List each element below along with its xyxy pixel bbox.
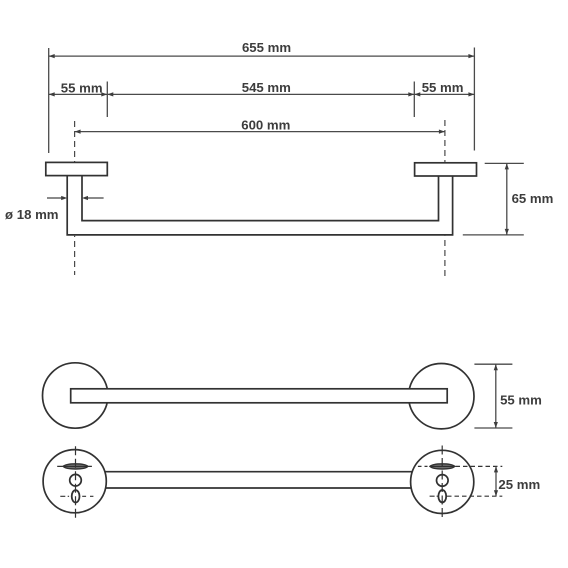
left anchor lens mid line <box>63 465 88 467</box>
tick left (row2) <box>106 82 108 118</box>
left anchor centerline dashes <box>57 465 92 467</box>
arrow row2 at left ext <box>49 92 55 96</box>
bar tube white body <box>66 175 453 236</box>
25 mm dimension line <box>495 466 497 496</box>
left oval centerline dashes <box>60 495 93 497</box>
centerline right (dashed) <box>444 120 446 277</box>
arrow 655 left <box>49 54 55 58</box>
back view: left rosette circle <box>43 450 106 513</box>
dashed line oval to dimension <box>447 495 502 497</box>
left anchor lens <box>63 464 88 469</box>
arrow row2 left tick from 55 side <box>101 92 107 96</box>
svg-text:600 mm: 600 mm <box>241 117 290 132</box>
right anchor lens mid line <box>430 465 455 467</box>
svg-text:55 mm: 55 mm <box>61 80 103 95</box>
right vertical centerline <box>441 446 443 521</box>
arrow row2 left tick from 545 side <box>107 92 113 96</box>
front view: right rosette circle <box>409 364 474 429</box>
back view: bar top line <box>105 471 412 473</box>
svg-text:65 mm: 65 mm <box>512 191 554 206</box>
svg-text:655 mm: 655 mm <box>242 40 291 55</box>
right oval left dashes <box>430 495 439 497</box>
svg-text:545 mm: 545 mm <box>242 80 291 95</box>
arrow 25 top <box>494 466 498 472</box>
centerline left (dashed) <box>74 121 76 275</box>
dimension line row2 <box>49 93 475 95</box>
diameter arrow left <box>47 197 62 199</box>
arrow 65 bottom <box>505 229 509 235</box>
55 mm reference line top <box>474 363 512 365</box>
front view: left rosette circle <box>42 363 107 428</box>
arrow row2 at right ext <box>468 92 474 96</box>
bar inner contour <box>82 176 439 221</box>
left screw head circle <box>70 474 82 486</box>
svg-text:ø 18 mm: ø 18 mm <box>5 207 59 222</box>
arrow 55 bottom <box>494 422 498 428</box>
arrow 55 top <box>494 364 498 370</box>
right screw oval <box>438 490 446 502</box>
65 mm reference line bottom <box>463 234 524 236</box>
arrow 655 right <box>468 54 474 58</box>
left vertical centerline <box>75 446 77 519</box>
right wall plate <box>415 163 477 176</box>
svg-text:25 mm: 25 mm <box>498 477 540 492</box>
extension line left <box>48 48 50 153</box>
left screw oval <box>72 490 80 502</box>
55 mm reference line bottom <box>474 427 512 429</box>
svg-text:55 mm: 55 mm <box>500 392 542 407</box>
right anchor lens <box>430 464 455 469</box>
arrow 25 bottom <box>494 490 498 496</box>
left wall plate <box>46 162 108 175</box>
right screw head circle <box>437 475 449 487</box>
65 mm dimension line <box>506 163 508 235</box>
extension line right <box>473 48 475 151</box>
arrow 600 right <box>439 130 445 134</box>
svg-text:55 mm: 55 mm <box>422 80 464 95</box>
front view: bar <box>71 389 448 403</box>
dimension line 600 mm <box>75 131 445 133</box>
arrow row2 right tick from 545 side <box>408 92 414 96</box>
bar outer contour <box>67 176 452 235</box>
diameter arrow right <box>88 197 104 199</box>
tick right (row2) <box>413 82 415 118</box>
right anchor left dashes <box>418 465 428 467</box>
65 mm reference line top <box>485 162 524 164</box>
arrow 65 top <box>505 163 509 169</box>
arrow 600 left <box>75 130 81 134</box>
back view: bar bottom line <box>106 487 412 489</box>
55 mm dimension line <box>495 364 497 428</box>
dimension line 655 mm <box>49 55 475 57</box>
back view: right rosette circle <box>411 450 474 513</box>
arrow row2 right tick from 55 side <box>414 92 420 96</box>
dashed line lens to dimension <box>456 465 503 467</box>
